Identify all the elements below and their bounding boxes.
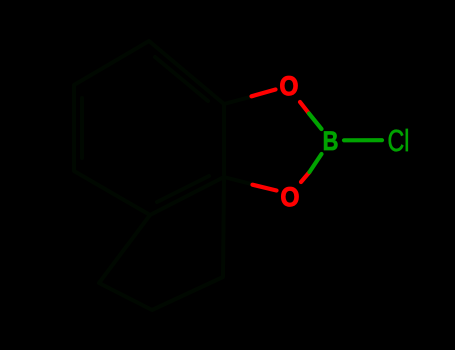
aromatic inner line, bottom-right edge bbox=[157, 176, 209, 202]
wire: C2 to O bottom, dark half bbox=[224, 177, 251, 184]
wire: O top to B, green part bbox=[309, 114, 322, 130]
svg-text:Cl: Cl bbox=[388, 123, 410, 158]
atom Cl bbox=[388, 123, 410, 158]
aromatic inner line, top-right edge bbox=[155, 57, 208, 101]
aromatic inner line, left edge bbox=[80, 98, 84, 158]
atom O top bbox=[280, 72, 299, 101]
wire: C1 to O top, dark half bbox=[224, 97, 250, 104]
wire: B to Cl bbox=[344, 138, 382, 142]
svg-text:O: O bbox=[280, 72, 299, 101]
wire: C2 to O bottom, red half bbox=[253, 185, 277, 191]
wire: O bottom to B, green part bbox=[310, 154, 322, 172]
svg-text:B: B bbox=[323, 127, 339, 157]
wire: C1 to O top, red half bbox=[252, 90, 276, 97]
atom B bbox=[323, 127, 339, 157]
benzene ring (dark raw pixels) bbox=[74, 41, 224, 215]
wire: O top to B, red part bbox=[300, 102, 309, 114]
wire: O bottom to B, red part bbox=[301, 172, 310, 182]
cyclopentane ring (dark raw pixels) bbox=[99, 177, 224, 310]
atom O bottom bbox=[281, 183, 300, 212]
svg-text:O: O bbox=[281, 183, 300, 212]
